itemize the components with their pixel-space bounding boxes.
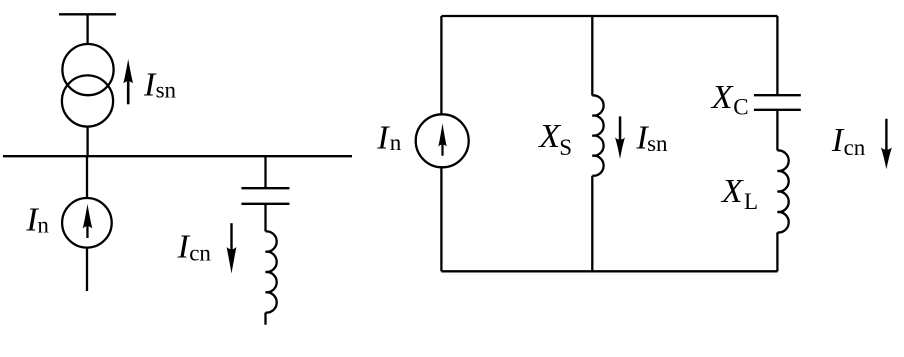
inductor coil (left branch)	[266, 231, 277, 312]
svg-text:C: C	[733, 94, 748, 119]
capacitor Xc plate top	[754, 94, 801, 96]
right wire upper	[776, 16, 778, 95]
arrow Icn down (right diagram): shaft	[885, 119, 887, 158]
arrow Icn down (left diagram): head	[227, 247, 237, 274]
wire below inductor	[264, 313, 266, 325]
svg-text:X: X	[710, 79, 734, 116]
capacitor plate bottom (left branch)	[241, 203, 289, 205]
wire bus to capacitor branch	[264, 156, 266, 188]
middle wire upper	[591, 16, 593, 96]
right wire lower	[776, 232, 778, 271]
arrow inside current source In (left): shaft	[86, 214, 88, 238]
wire transformer to bus	[86, 127, 88, 157]
svg-text:X: X	[720, 173, 744, 210]
inductor Xs coil	[592, 95, 603, 175]
capacitor Xc plate bottom	[754, 109, 801, 111]
arrow Icn down (right diagram): head	[881, 148, 892, 170]
arrow inside current source In (right): head	[438, 123, 446, 146]
svg-text:L: L	[744, 189, 758, 214]
wire capacitor to inductor	[264, 204, 266, 232]
svg-text:X: X	[537, 118, 561, 155]
svg-text:n: n	[390, 130, 402, 155]
right diagram: top wire	[441, 15, 777, 17]
svg-text:cn: cn	[844, 135, 866, 160]
transformer T winding 2	[62, 75, 113, 126]
arrow Icn down (left diagram): shaft	[230, 223, 232, 262]
arrow inside current source In (left): head	[83, 204, 93, 229]
middle wire lower	[591, 176, 593, 272]
left wire	[440, 16, 442, 271]
svg-text:S: S	[559, 135, 572, 160]
svg-text:sn: sn	[647, 131, 668, 156]
arrow Isn down (right diagram): head	[615, 138, 625, 159]
current source In circle (right)	[416, 114, 469, 167]
bus bar	[3, 155, 352, 157]
left diagram: source terminal bar	[59, 13, 116, 15]
svg-text:n: n	[37, 212, 49, 237]
wire bus to current source In	[86, 156, 88, 198]
svg-text:cn: cn	[189, 240, 211, 265]
wire below current source	[86, 248, 88, 291]
svg-text:I: I	[376, 119, 390, 156]
transformer T winding 1	[62, 44, 113, 95]
arrow Isn up (left): head	[123, 59, 133, 84]
current source In circle	[62, 198, 112, 248]
bottom wire	[441, 270, 777, 272]
capacitor plate top (left branch)	[241, 187, 289, 189]
svg-text:sn: sn	[156, 77, 177, 102]
wire Xc to Xl	[776, 110, 778, 151]
inductor Xl coil	[777, 150, 788, 232]
arrow inside current source In (right): shaft	[441, 133, 443, 156]
arrow Isn up (left, beside transformer): shaft	[127, 70, 130, 104]
arrow Isn down (right diagram): shaft	[619, 116, 622, 148]
wire terminal bar to transformer	[86, 14, 88, 44]
